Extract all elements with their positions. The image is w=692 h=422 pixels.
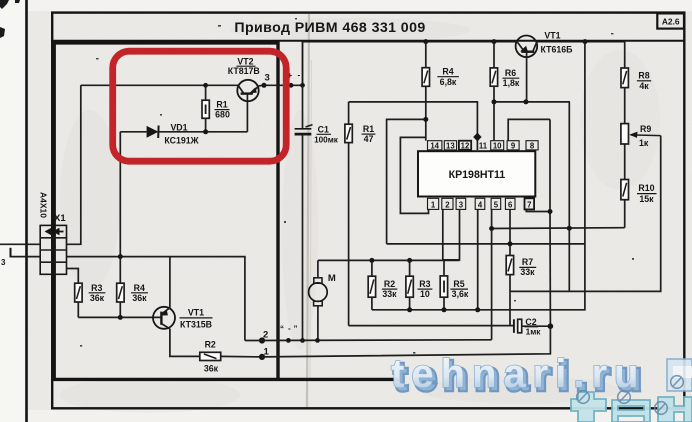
wire pin7/pin9 vertical to wire1 [549,119,551,211]
zone box A2.6 [657,13,684,28]
svg-text:8: 8 [530,142,535,151]
scan crease [307,13,309,408]
diode VD1 zener [120,126,247,139]
resistor R6 1.8k [490,42,497,141]
svg-text:R2: R2 [205,340,216,350]
label R1 / 47 [362,124,376,144]
svg-text:R5: R5 [453,279,464,289]
node dot R4 bottom [118,315,123,320]
bottom bus y310 [372,42,585,310]
svg-text:VT1: VT1 [544,31,560,41]
label VT1 / KT616B [541,31,574,55]
svg-text:R8: R8 [638,71,649,81]
terminal 1 [259,347,270,360]
svg-text:КР198НТ11: КР198НТ11 [449,169,506,181]
wire VT1 emitter down to R2 [170,329,200,357]
transistor VT1 KT616B [516,36,538,102]
svg-text:33к: 33к [382,289,397,299]
wire node row y85 right segment [264,84,303,86]
svg-text:”: ” [294,325,298,334]
node dot R3 top [407,258,412,263]
node dot rail right [583,39,588,44]
svg-text:Привод РИВМ 468 331 009: Привод РИВМ 468 331 009 [234,20,425,36]
node dot R4 line B [423,117,428,122]
svg-text:R9: R9 [640,124,651,134]
label R7 / 33k [519,257,536,277]
watermark fragment right edge [667,359,692,391]
label C1 / 100mk [314,124,339,144]
wire pin9 loop [508,119,550,140]
wire pin2 down [442,209,444,260]
label R2 / 33k [382,279,397,299]
scan smudges top left [0,0,20,38]
title band line [52,40,684,42]
watermark no-symbols [577,376,684,415]
node dot x569 sense [567,226,572,231]
wire line A to pin11 [349,102,478,150]
sense bus y228 [492,227,625,230]
svg-text:R3: R3 [91,283,102,293]
wire base bus to VT1 [78,316,161,318]
svg-text:R4: R4 [134,283,145,293]
resistor R8 4k [621,42,628,124]
node dot R1-VD1 [203,129,208,134]
motor M [309,260,336,340]
svg-text:3: 3 [459,200,464,209]
svg-text:1мк: 1мк [526,327,542,336]
svg-text:А4Х10: А4Х10 [39,192,49,218]
wire pin4 down [477,209,479,309]
svg-text:1: 1 [431,200,436,209]
label VD1 / KS191Zh [164,122,198,145]
base bus y244 [387,243,585,245]
resistor R4 6.8k [422,42,429,141]
IC top pin boxes 14 13 12 11 10 9 8 [428,141,539,151]
watermark row2 giant letter h partial [658,397,692,422]
label R5 / 3.6k [450,279,469,299]
svg-text:КТ315В: КТ315В [180,320,212,330]
label R8 / 4k [637,71,651,91]
svg-text:10: 10 [493,142,502,151]
svg-text:14: 14 [430,142,439,151]
svg-text:R6: R6 [505,68,516,78]
terminal 2 [259,330,268,344]
svg-text:R4: R4 [442,66,453,76]
watermark row1 tehnari.ru [391,352,648,399]
resistor R3 36k [75,283,82,317]
svg-text:7: 7 [527,200,531,209]
transistor VT1 KT315 [153,307,175,329]
svg-text:3: 3 [1,258,6,267]
wire pin6 down to R7 [509,209,511,255]
svg-text:6: 6 [508,200,513,209]
svg-text:1,8к: 1,8к [503,78,520,88]
C2 feed line from R1 [349,325,514,327]
svg-text:3: 3 [51,264,56,275]
node dot pin2/VD1 leg [118,254,123,259]
resistor R2 33k [368,260,375,309]
svg-text:1: 1 [51,240,57,251]
watermark row2 giant letter t [571,392,606,422]
svg-text:11: 11 [479,142,488,151]
resistor R1 47 [345,102,352,326]
label C2 / 1mk [524,317,541,336]
label R3 / 10 [417,279,432,299]
node dot rail R4 [423,39,428,44]
node dot R2 top [369,258,374,263]
wire pin7 right then down [526,209,550,211]
svg-text:2: 2 [51,252,56,263]
wire VT2 base lead down [246,94,248,132]
svg-text:10: 10 [420,289,430,299]
svg-text:VT2: VT2 [237,56,253,66]
resistor R3 10 [406,260,413,309]
node dot rail R6 [492,39,497,44]
wire X1 pin1 up to node row [67,85,81,244]
svg-text:VT1: VT1 [188,308,204,318]
wire node row y85 left segment [81,84,239,86]
svg-text:3,6к: 3,6к [452,289,469,299]
resistor R4 36k [117,257,124,318]
resistor R5 3.6k [440,276,447,310]
node dot pin7 [548,209,553,214]
node dots bus 310 [407,307,480,312]
svg-text:6,8к: 6,8к [440,77,457,87]
node dot pin5 sense [489,226,494,231]
wire X1 pin3 to R3 [67,269,79,284]
resistor R1 680 [202,83,209,132]
label R6 / 1.8k [502,68,520,88]
divider bus y260 [318,259,460,261]
emitter line C with node dots [492,99,571,104]
capacitor C1 [295,85,313,340]
svg-text:100мк: 100мк [314,135,339,144]
svg-text:-: - [288,324,291,333]
svg-text:4: 4 [478,200,483,209]
svg-text:КС191Ж: КС191Ж [164,136,198,146]
node dot C2 right [548,323,554,329]
label R9 / 1k [639,124,651,148]
resistor R10 15k [621,180,629,228]
minus quote marks [280,324,298,334]
svg-text:5: 5 [494,200,499,209]
svg-text:А2.6: А2.6 [662,17,680,27]
svg-text:R1: R1 [216,100,227,110]
svg-text:15к: 15к [639,194,654,204]
capacitor C2 [514,319,551,333]
emitter feedback drop x569 [568,102,570,292]
label R4 / 36k [131,283,148,303]
watermark row2 giant letter e [612,400,650,422]
svg-text:36к: 36к [132,293,147,303]
svg-text:36к: 36к [90,293,105,303]
svg-text:12: 12 [461,142,470,151]
svg-text:2: 2 [445,200,450,209]
svg-text:4к: 4к [639,81,649,91]
transistor VT2 [237,80,264,101]
svg-text:13: 13 [446,142,455,151]
inner thick box around drive unit [52,41,399,380]
svg-text:КТ817В: КТ817В [228,66,260,76]
IC bottom pin boxes 1-7 [428,198,535,209]
svg-text:33к: 33к [520,267,535,277]
label VT2 / KT817V [228,56,260,76]
svg-text:36к: 36к [204,364,219,374]
svg-text:R10: R10 [638,183,654,193]
svg-text:R3: R3 [419,279,430,289]
node dots on wire 2 [286,338,320,343]
node dot pin6 bus [508,241,513,246]
wire line B R4 to left drop [387,119,426,243]
wire pin1 loop to pin14 [400,137,428,213]
svg-text:VD1: VD1 [170,122,187,132]
scan specks [80,18,634,354]
svg-text:9: 9 [511,142,516,151]
node dot VT2 collector with pin 3 [262,73,270,88]
resistor R2 36k horizontal [200,352,262,360]
external input wire row a [0,243,40,245]
page edge line [25,0,28,422]
label R4 / 6.8k [437,66,459,87]
svg-text:C1: C1 [318,124,329,134]
resistor R7 33k [506,256,513,326]
svg-text:X1: X1 [54,213,66,224]
resistor R9 1k variable [621,124,661,180]
svg-text:-: - [298,71,301,80]
wire pin3 jog to R5 [444,209,460,276]
wire VT1 collector up to pin2 bus [169,257,171,308]
external input wire row b with terminal bar [1,248,40,267]
connector X1 [40,213,66,275]
svg-text:R2: R2 [384,279,395,289]
label VT1 / KT315V [180,308,213,330]
red highlight box [113,51,287,161]
IC KR198NT11 body [418,151,535,196]
label R1 / 680 [215,100,230,120]
svg-text:R7: R7 [522,257,533,267]
svg-text:“: “ [280,325,284,334]
motor drain wire 1 [262,326,550,357]
svg-text:3: 3 [265,73,270,84]
junction diamond pin11 [473,133,481,142]
label R3 / 36k [89,283,106,303]
svg-text:tehnari.ru: tehnari.ru [391,352,645,396]
motor supply wire 2 [245,339,492,342]
supply rail [303,42,516,86]
wire VD1 left leg down to pin2 net [119,132,121,257]
svg-text:680: 680 [215,109,230,119]
svg-text:C2: C2 [525,317,536,327]
wire pin5 down to wire 2 [491,209,493,339]
svg-text:1к: 1к [639,138,649,148]
svg-text:КТ616Б: КТ616Б [541,45,574,55]
label R2 / 36k [204,340,219,374]
svg-text:47: 47 [364,134,374,144]
wire X1 pin2 bus [67,257,245,341]
svg-text:M: M [328,273,336,284]
plus minus marks and node dots [288,71,305,88]
svg-text:R1: R1 [363,124,374,134]
label R10 / 15k [637,183,657,204]
R9 wiper return line [510,136,661,292]
